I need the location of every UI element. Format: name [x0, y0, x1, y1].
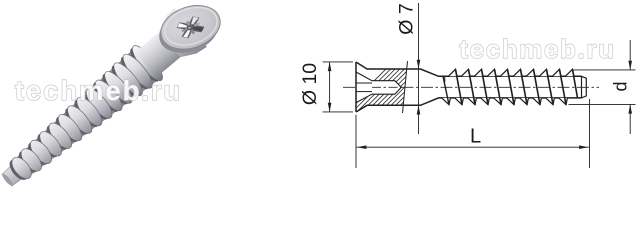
- pozidriv recess: [172, 15, 208, 40]
- screw tip nub: [1, 161, 27, 187]
- head face line: [355, 62, 357, 112]
- thread helix lines: [443, 76, 449, 104]
- svg-text:techmeb.ru: techmeb.ru: [459, 34, 615, 64]
- screw body outline top: [356, 62, 582, 76]
- dimension D10 extension lines: [323, 61, 354, 63]
- svg-text:L: L: [470, 126, 481, 148]
- svg-text:Ø 10: Ø 10: [299, 63, 321, 105]
- centerline inside socket: [372, 86, 401, 88]
- head cone: [153, 8, 206, 64]
- svg-text:techmeb.ru: techmeb.ru: [15, 75, 182, 106]
- centerline: [343, 86, 599, 88]
- dimension D7 line: [418, 3, 420, 134]
- thread teeth top: [448, 69, 457, 76]
- socket cavity fill: [356, 72, 401, 103]
- dimension L line: [357, 146, 589, 148]
- thread teeth bottom: [442, 98, 451, 105]
- socket cavity outline: [356, 72, 401, 103]
- thread shadow base: [6, 47, 161, 186]
- svg-text:d: d: [611, 81, 631, 91]
- dimension d extension lines: [574, 69, 636, 71]
- dimension L extension lines: [355, 115, 357, 168]
- thread coils: [126, 45, 163, 86]
- tip end face: [582, 76, 587, 98]
- head rim shadow: [152, 0, 227, 60]
- tip chamfer ring: [581, 76, 583, 98]
- section break line: [403, 61, 408, 113]
- dimension d line: [629, 40, 631, 69]
- dimension D10 line: [329, 63, 331, 112]
- svg-text:Ø 7: Ø 7: [396, 3, 418, 34]
- thread runout line: [444, 76, 446, 82]
- screw body outline bottom: [356, 98, 582, 112]
- head face: [155, 0, 226, 57]
- socket hex inner lines: [356, 82, 372, 84]
- shank: [135, 29, 184, 77]
